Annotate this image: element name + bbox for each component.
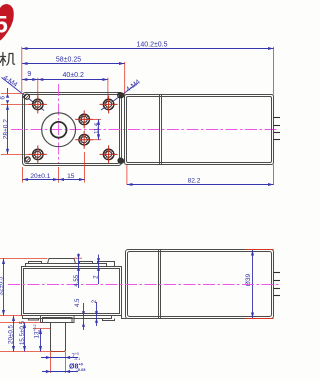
pin hole bottom-left corner	[25, 157, 30, 162]
side view body	[125, 95, 274, 165]
mounting hole M4 bottom-right	[100, 145, 118, 163]
logo	[0, 4, 14, 43]
4-M4 left label	[2, 74, 45, 110]
mounting hole M4 top-right	[100, 95, 118, 113]
svg-text:32±0.5: 32±0.5	[0, 276, 5, 295]
pin hole top-left corner	[24, 94, 29, 99]
shaft dims	[41, 352, 86, 373]
chinese char ji (machine)	[0, 53, 15, 66]
top plate and tabs	[26, 259, 115, 267]
svg-text:11.4: 11.4	[94, 122, 100, 134]
left dims bottom view	[0, 259, 66, 352]
svg-text:7+0-0.1: 7+0-0.1	[72, 352, 81, 361]
mounting hole M4 top-left	[29, 95, 47, 113]
output shaft boss circle	[42, 113, 76, 147]
svg-text:4.5: 4.5	[75, 298, 81, 307]
svg-text:6: 6	[0, 96, 7, 100]
4-M4 right label	[101, 78, 142, 110]
dim 82.2	[127, 178, 274, 185]
svg-text:28±0.2: 28±0.2	[2, 119, 9, 139]
red overlay on motor edges	[245, 249, 274, 251]
dim 40±0.2	[38, 72, 108, 80]
dia 39 dim	[245, 250, 253, 318]
svg-text:82.2: 82.2	[188, 178, 201, 185]
dim 140.2±0.5	[22, 41, 274, 48]
terminals right top view	[274, 118, 281, 140]
fixing hole upper-mid	[75, 110, 93, 128]
svg-text:4.55: 4.55	[74, 274, 80, 286]
horizontal centerline	[11, 129, 279, 131]
fixing hole lower-mid	[75, 131, 93, 149]
svg-text:20±0.5: 20±0.5	[8, 325, 15, 344]
bottom plate, hub, shaft	[23, 316, 115, 352]
terminals bottom right	[274, 273, 281, 296]
dim 58±0.25	[22, 57, 125, 64]
motor bottom view body	[122, 250, 274, 319]
svg-text:9: 9	[27, 71, 31, 78]
mounting hole M4 bottom-left	[29, 145, 47, 163]
svg-text:15.5±0.5: 15.5±0.5	[19, 320, 26, 345]
svg-text:40±0.2: 40±0.2	[63, 72, 84, 79]
pin hole bottom-right corner	[118, 158, 123, 163]
front view body	[23, 93, 122, 166]
gearbox bottom view body	[22, 267, 122, 316]
svg-text:15: 15	[67, 173, 75, 180]
small dims 4.5 / 2 bottom	[75, 298, 98, 330]
svg-text:140.2±0.5: 140.2±0.5	[136, 41, 167, 48]
svg-text:58±0.25: 58±0.25	[56, 57, 81, 64]
small dims 4.55 / 2 top	[74, 254, 100, 289]
dim 11.4	[90, 119, 102, 139]
svg-text:5: 5	[0, 12, 8, 39]
vertical centerline of output shaft	[58, 84, 60, 163]
pin hole top-right corner	[118, 93, 123, 98]
screw head bottom on side view left	[119, 158, 125, 164]
red extension lines top	[21, 47, 23, 92]
screw head top on side view left	[119, 92, 125, 98]
dim 9	[22, 71, 38, 80]
dims below front view: 20±0.1, 15	[23, 152, 85, 183]
output shaft bore	[51, 122, 67, 138]
svg-text:20±0.1: 20±0.1	[30, 173, 50, 180]
magenta centerline bottom	[8, 284, 279, 286]
dim 6 left	[0, 88, 29, 154]
